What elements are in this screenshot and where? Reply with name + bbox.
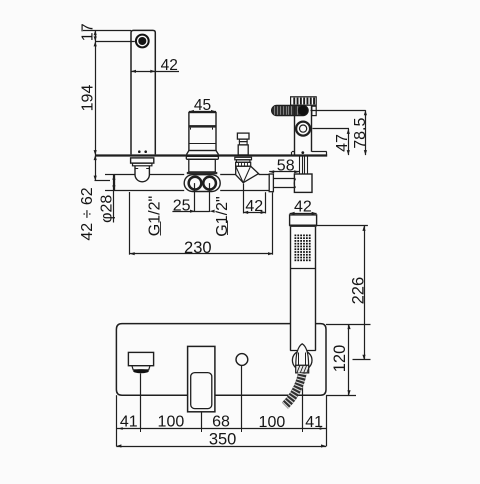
- diverter flange below deck: [235, 157, 252, 166]
- dim line 45 handle width: [189, 110, 216, 113]
- label 230: [184, 239, 212, 257]
- spout base screws dots: [138, 150, 147, 153]
- svg-text:226: 226: [349, 277, 367, 305]
- plate diverter knob front view: [236, 354, 248, 366]
- dim extension line hose connector axis: [353, 359, 371, 361]
- bracket lever handle: [272, 105, 309, 115]
- label 78.5: [352, 118, 369, 149]
- svg-text:42: 42: [161, 57, 178, 74]
- label 120: [331, 345, 349, 373]
- dim extension line top of spout: [83, 30, 131, 32]
- label 42 hand shower: [294, 199, 312, 216]
- dim 230 extension lines: [130, 192, 273, 255]
- extension lines plate edges to dims: [117, 395, 327, 446]
- label 226: [349, 277, 367, 305]
- extension line hose axis to dim row: [302, 374, 304, 429]
- spout body (side view): [131, 30, 155, 154]
- diverter knob stem above deck: [237, 133, 249, 155]
- deck / mounting surface line: [95, 154, 327, 156]
- svg-text:45: 45: [194, 97, 211, 114]
- bracket body: [295, 105, 317, 155]
- dim leader phi28: [105, 175, 116, 223]
- mixer body stadium with two inlet circles: [184, 175, 220, 192]
- svg-text:42: 42: [294, 199, 312, 216]
- label 194: [79, 85, 96, 112]
- manifold bar top edge: [114, 174, 269, 176]
- label 100 second: [158, 414, 185, 431]
- mixer cartridge below deck: [186, 156, 218, 174]
- spout escutcheon flange below deck: [131, 158, 154, 166]
- dim line 47: [347, 129, 350, 155]
- dim line 120: [347, 324, 350, 395]
- dim line 230: [130, 252, 273, 255]
- bracket screw dot: [301, 151, 304, 154]
- extension line spout axis to dim row: [140, 373, 142, 428]
- svg-text:47: 47: [334, 134, 351, 152]
- dim extension line spout outlet axis: [95, 41, 135, 43]
- dim line 42 hand shower: [290, 212, 317, 215]
- dim line 42 spout width: [131, 70, 179, 73]
- label 58: [277, 157, 295, 174]
- pipe flange at manifold end: [269, 174, 273, 192]
- bracket base foot: [292, 152, 327, 156]
- label 41 first: [120, 414, 138, 431]
- dim extension line shower face top: [317, 225, 368, 227]
- label 17: [79, 23, 96, 41]
- svg-text:25: 25: [173, 198, 191, 215]
- svg-text:G1/2": G1/2": [214, 196, 231, 236]
- dim line 25: [172, 210, 214, 213]
- svg-text:120: 120: [331, 345, 349, 373]
- dim line 226: [362, 226, 365, 360]
- label 41 fifth: [305, 414, 323, 431]
- label 68: [212, 413, 230, 430]
- manifold bar bottom edge: [114, 190, 269, 192]
- dim line 58: [269, 170, 299, 173]
- hand shower inlet cone: [296, 344, 309, 366]
- hand shower spray nozzle grid: [295, 235, 311, 262]
- bracket shower holder ring: [296, 122, 310, 136]
- label 350: [209, 431, 237, 449]
- bracket ribbed adjuster knob: [291, 97, 317, 105]
- horizontal pipe to bracket: [273, 179, 295, 188]
- plate spout front view: [128, 352, 153, 373]
- dim 42 diverter extension lines: [244, 184, 266, 214]
- hose nut: [296, 365, 309, 373]
- dim extension line lever axis: [311, 110, 366, 112]
- label 42 diverter: [245, 198, 263, 215]
- svg-text:68: 68: [212, 413, 230, 430]
- plate lever handle front view: [188, 346, 215, 411]
- hose connector ball ring: [292, 351, 312, 371]
- dim line vertical left chain: [94, 30, 110, 181]
- label 42 spout: [161, 57, 178, 74]
- mixer handle (side view): [187, 113, 219, 155]
- svg-text:42: 42: [245, 198, 263, 215]
- dim extension line plate top right: [326, 324, 371, 326]
- spout threaded shank with round bottom: [135, 166, 149, 182]
- svg-text:42 ÷ 62: 42 ÷ 62: [79, 187, 96, 240]
- label 100 fourth: [259, 414, 286, 431]
- hand shower head: [290, 215, 317, 227]
- dim line chain 41 100 68 100 41: [116, 425, 326, 432]
- bracket supply pipes below deck: [300, 156, 308, 174]
- dim extension lines inlet centers: [195, 183, 210, 212]
- svg-text:350: 350: [209, 431, 237, 449]
- svg-text:41: 41: [120, 414, 138, 431]
- svg-text:100: 100: [259, 414, 286, 431]
- svg-text:100: 100: [158, 414, 185, 431]
- manifold bar left end cap: [114, 175, 116, 191]
- svg-text:78.5: 78.5: [352, 118, 369, 149]
- wall plate rounded rectangle: [116, 324, 326, 396]
- label G1/2 right with tick: [214, 196, 231, 236]
- dim extension line plate bottom right: [326, 395, 356, 397]
- svg-text:230: 230: [184, 239, 212, 257]
- dim line 350: [116, 444, 326, 447]
- label 47: [334, 134, 351, 152]
- svg-text:41: 41: [305, 414, 323, 431]
- flexible hose: [285, 373, 302, 405]
- label 45: [194, 97, 211, 114]
- bracket elbow block below deck: [294, 174, 312, 192]
- extension line handle axis to dim row: [201, 412, 203, 429]
- label phi28: [98, 195, 115, 223]
- extension line knob axis to dim row: [241, 365, 243, 428]
- label G1/2 left with tick: [147, 196, 164, 236]
- svg-text:58: 58: [277, 157, 295, 174]
- dim line 78.5: [364, 110, 367, 155]
- svg-text:φ28: φ28: [98, 195, 115, 223]
- label 42÷62: [79, 187, 96, 240]
- dim line 42 diverter: [243, 211, 265, 214]
- dim extension line holder axis: [313, 128, 350, 130]
- label 25: [173, 198, 191, 215]
- svg-text:17: 17: [79, 23, 96, 41]
- diverter cone: [236, 166, 259, 183]
- hand shower body and handle: [290, 227, 316, 351]
- svg-text:194: 194: [79, 85, 96, 112]
- spout outlet circle: [135, 34, 150, 49]
